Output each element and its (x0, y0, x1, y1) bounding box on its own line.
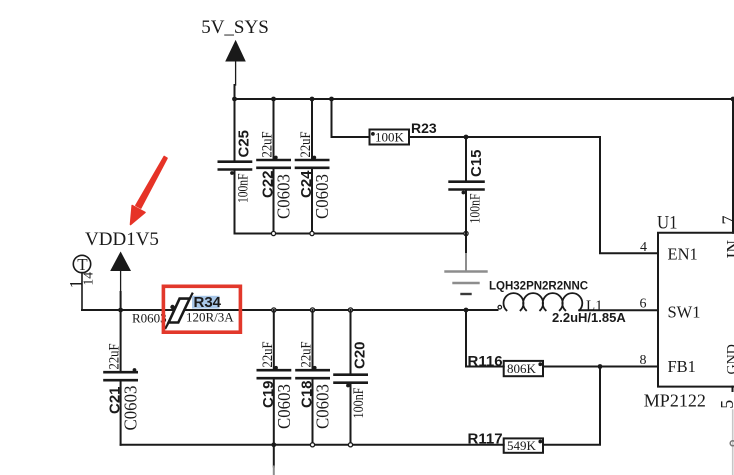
svg-text:22uF: 22uF (298, 132, 314, 158)
red annotation box (163, 286, 240, 332)
svg-text:100nF: 100nF (468, 194, 484, 224)
pin 8 FB1 (640, 353, 696, 376)
svg-text:120R/3A: 120R/3A (186, 310, 234, 325)
capacitor C22 (258, 99, 294, 234)
capacitor C19 (258, 310, 294, 445)
node bus junction R23 tap (329, 97, 334, 102)
svg-text:C0603: C0603 (274, 384, 294, 429)
svg-text:T: T (77, 255, 88, 274)
pin 4 EN1 (640, 240, 698, 263)
resistor R23 (370, 120, 437, 145)
wire bottom rail (121, 444, 504, 446)
node junction R116 tap (464, 308, 469, 313)
svg-text:6: 6 (640, 297, 647, 312)
power symbol 5V_SYS (201, 17, 269, 85)
svg-text:C0603: C0603 (121, 386, 141, 431)
wire 5V stem to bus (234, 85, 236, 99)
op-amp U1 MP2122 box (658, 233, 734, 387)
node junction C21 (118, 308, 123, 313)
R34 highlighted designator (192, 296, 220, 309)
svg-text:R117: R117 (468, 431, 503, 448)
svg-text:2.2uH/1.85A: 2.2uH/1.85A (552, 310, 626, 325)
wire R116 branch (466, 310, 504, 367)
svg-text:806K: 806K (507, 361, 537, 376)
wire gnd stub below C19 (273, 445, 275, 467)
resistor R117 (468, 431, 544, 453)
capacitor C24 (296, 99, 332, 234)
node gnd rail end open pin (464, 231, 468, 235)
svg-text:VDD1V5: VDD1V5 (85, 229, 159, 250)
svg-text:R23: R23 (411, 120, 437, 136)
svg-text:100K: 100K (375, 130, 405, 145)
svg-text:100nF: 100nF (236, 174, 252, 204)
svg-text:FB1: FB1 (668, 357, 696, 376)
wire pin7 IN drop (732, 99, 734, 233)
node junction FB1/R117 (598, 364, 603, 369)
wire caps ground rail (235, 233, 467, 235)
wire L1 to SW1 (579, 309, 658, 311)
svg-text:22uF: 22uF (299, 342, 315, 368)
svg-text:22uF: 22uF (260, 342, 276, 368)
svg-text:SW1: SW1 (668, 303, 701, 322)
node bus corner pin7 (731, 97, 734, 102)
capacitor C18 (297, 310, 333, 445)
node junction C15 tap (464, 135, 469, 140)
svg-text:MP2122: MP2122 (644, 390, 706, 410)
wire R23 to EN1 (409, 137, 658, 253)
wire R117 to FB1 node (543, 367, 600, 445)
node C18 bottom open pin (310, 443, 314, 447)
svg-text:100nF: 100nF (351, 388, 367, 419)
node bus junction C24 (310, 97, 315, 102)
svg-text:R34: R34 (194, 294, 222, 311)
wire R23 tap (332, 99, 370, 137)
capacitor C21 (105, 310, 141, 445)
capacitor C15 (450, 137, 485, 254)
testpoint T14 (66, 255, 96, 310)
pin 6 SW1 (640, 297, 701, 322)
svg-text:C0603: C0603 (313, 384, 333, 429)
svg-text:C15: C15 (468, 149, 485, 177)
node C22 gnd open pin (271, 231, 275, 235)
svg-text:22uF: 22uF (260, 132, 276, 158)
resistor R116 (468, 353, 544, 376)
svg-text:5: 5 (717, 400, 734, 409)
resistor R34 (jumper symbol) (166, 294, 193, 328)
svg-text:5V_SYS: 5V_SYS (201, 17, 269, 38)
svg-text:LQH32PN2R2NNC: LQH32PN2R2NNC (489, 281, 588, 293)
node bus junction C22 (271, 97, 276, 102)
inductor L1 (498, 293, 582, 310)
svg-text:U1: U1 (657, 213, 678, 234)
svg-text:C25: C25 (236, 130, 253, 158)
ground (446, 254, 487, 294)
node C18 open pin (310, 308, 314, 312)
node C20 bottom open pin (348, 443, 352, 447)
pin 7 IN (719, 216, 734, 259)
node bus junction C25 (232, 97, 237, 102)
svg-text:GND: GND (725, 344, 734, 374)
node C24 gnd open pin (310, 231, 314, 235)
red annotation arrow (131, 157, 168, 225)
wire mid VDD1V5 rail (82, 309, 498, 311)
svg-text:549K: 549K (507, 438, 537, 453)
capacitor C20 (335, 310, 369, 445)
svg-text:C0603: C0603 (312, 174, 332, 219)
svg-text:IN: IN (723, 240, 734, 259)
svg-text:7: 7 (719, 216, 734, 225)
wire R116 to FB1 (543, 366, 658, 368)
capacitor C25 (219, 99, 253, 234)
svg-text:22uF: 22uF (107, 344, 123, 370)
node C19 open pin (272, 308, 276, 312)
pin 5 (717, 387, 734, 475)
svg-text:C0603: C0603 (274, 174, 294, 219)
svg-text:C20: C20 (352, 341, 369, 369)
wire top bus (235, 98, 734, 100)
svg-text:8: 8 (640, 353, 647, 368)
node junction C19 bottom (271, 442, 276, 447)
svg-text:4: 4 (640, 240, 647, 255)
power symbol VDD1V5 arrow (111, 253, 130, 311)
node C20 open pin (348, 308, 352, 312)
svg-text:R0603: R0603 (132, 311, 167, 326)
svg-text:EN1: EN1 (668, 244, 698, 263)
svg-text:R116: R116 (468, 353, 503, 370)
